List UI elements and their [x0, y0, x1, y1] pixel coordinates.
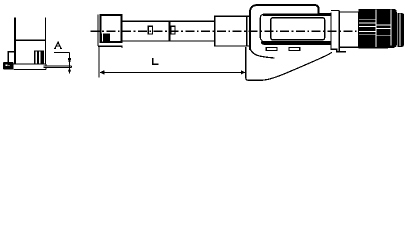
micrometer head: black anvil block — [101, 34, 111, 42]
body left lower curl — [250, 49, 275, 59]
L dimension line — [100, 71, 245, 73]
head tube side view: narrow tube lines — [44, 66, 72, 68]
clamp screw 2 — [171, 26, 175, 34]
head tube side view: wide bar outline — [14, 64, 47, 70]
body left edge and top outline — [250, 5, 331, 50]
left section view: cross shelf line — [16, 39, 46, 41]
L dimension right arrow — [241, 70, 246, 74]
tube bottom line — [122, 40, 215, 42]
dimension A up arrow — [68, 68, 71, 72]
body right edge with jog — [330, 13, 346, 52]
button 1 — [266, 47, 277, 50]
left section view: hatched clamp block — [34, 51, 44, 65]
left section view: left wall line — [14, 18, 16, 65]
micrometer head: thin end plate line — [97, 15, 99, 47]
barrel sleeve outline — [339, 12, 358, 47]
LCD window — [271, 18, 325, 40]
tube joint line — [169, 21, 171, 42]
tube top line — [122, 20, 215, 22]
display bezel left edge — [260, 15, 263, 41]
display bezel bottom band — [261, 41, 331, 45]
dimension A down arrow — [68, 58, 71, 65]
display bezel top thick line — [263, 13, 331, 16]
thimble black block — [359, 9, 397, 49]
dimension A leader — [54, 53, 70, 74]
body grip outline with left edge — [246, 47, 332, 80]
sleeve rectangle — [215, 16, 247, 46]
L dimension left extension line — [98, 47, 100, 78]
boot section top line — [331, 11, 339, 52]
ratchet stop black block — [398, 13, 405, 47]
L dimension left arrow — [100, 70, 105, 74]
dimension A label — [55, 42, 61, 48]
micrometer head: lower plate line — [98, 46, 122, 48]
clamp screw 1 — [148, 26, 152, 34]
left section view: right wall line — [45, 18, 47, 65]
button 2 — [289, 47, 300, 50]
center dash-dot line — [91, 30, 359, 32]
head tube side view: black end cap — [3, 62, 14, 70]
left section view: step bracket — [8, 52, 14, 64]
micrometer head: main block — [101, 15, 122, 42]
L label — [152, 58, 158, 65]
